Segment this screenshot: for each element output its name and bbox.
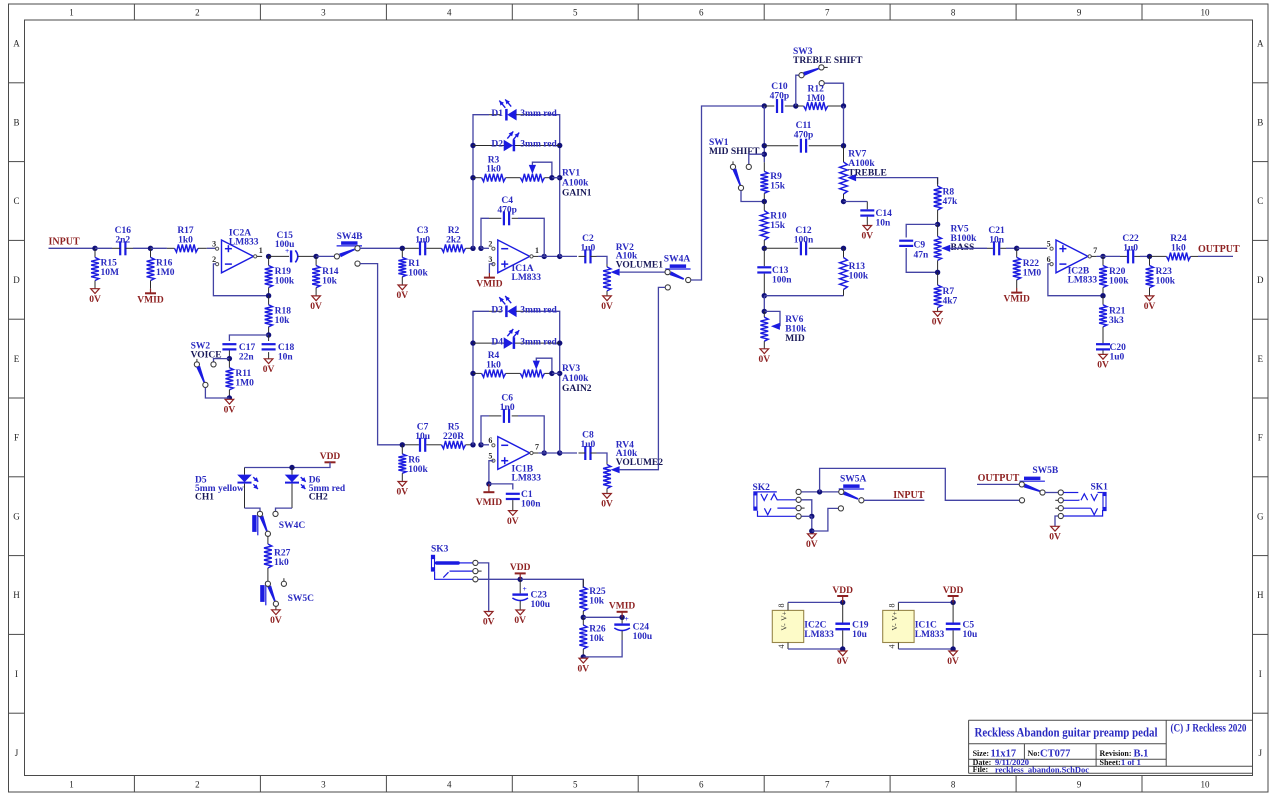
svg-text:2: 2 xyxy=(195,780,200,790)
node ch1 right rail xyxy=(557,254,562,259)
resistor R18 xyxy=(268,296,270,305)
ground 0V under R6 xyxy=(398,482,407,487)
wire IC2C V+ to VDD xyxy=(788,601,843,603)
svg-text:0V: 0V xyxy=(601,500,613,510)
svg-text:2n2: 2n2 xyxy=(115,235,130,245)
capacitor C1 xyxy=(489,484,513,490)
op-amp IC2B xyxy=(1056,240,1088,273)
svg-text:C9: C9 xyxy=(914,241,926,251)
ground 0V SK1 xyxy=(1051,526,1060,531)
svg-text:H: H xyxy=(1257,590,1264,600)
svg-text:A100k: A100k xyxy=(562,374,589,384)
svg-text:0V: 0V xyxy=(806,540,818,550)
node ch2 rail bottom xyxy=(470,442,475,447)
svg-text:6: 6 xyxy=(699,8,704,18)
resistor R26 xyxy=(582,617,584,625)
resistor R5 xyxy=(433,444,442,446)
ground 0V under R1 xyxy=(398,285,407,290)
capacitor C22 xyxy=(1127,249,1129,263)
node C11 left xyxy=(762,143,767,148)
svg-text:G: G xyxy=(13,511,20,521)
svg-text:(C) J Reckless 2020: (C) J Reckless 2020 xyxy=(1171,723,1247,735)
node SK2 tip junction xyxy=(817,489,822,494)
wire to C14 xyxy=(844,201,868,203)
svg-text:SW5C: SW5C xyxy=(288,594,315,604)
node R1 top xyxy=(400,246,405,251)
svg-text:100k: 100k xyxy=(275,277,295,287)
svg-text:1M0: 1M0 xyxy=(1023,269,1042,279)
node C12 right xyxy=(841,246,846,251)
svg-text:1k0: 1k0 xyxy=(1171,243,1186,253)
svg-text:0V: 0V xyxy=(483,618,495,628)
node RV5 bottom xyxy=(935,270,940,275)
resistor R3 xyxy=(473,177,482,179)
ground 0V IC1C xyxy=(949,651,958,656)
svg-text:1k0: 1k0 xyxy=(486,360,501,370)
node IC2A output xyxy=(266,254,271,259)
wire RV7 wiper to R8 xyxy=(856,178,938,184)
svg-text:V-: V- xyxy=(890,623,899,631)
wire SK1 sleeve to ground xyxy=(1055,516,1058,526)
svg-text:IC1C: IC1C xyxy=(915,621,937,631)
svg-text:R9: R9 xyxy=(770,172,782,182)
capacitor C20 xyxy=(1102,335,1104,343)
svg-text:J: J xyxy=(1259,748,1263,758)
node D4 left xyxy=(470,340,475,345)
svg-text:C13: C13 xyxy=(772,266,789,276)
wire tone rail1 xyxy=(763,106,765,162)
svg-text:VDD: VDD xyxy=(510,563,531,573)
capacitor C10 xyxy=(764,105,774,107)
svg-text:1: 1 xyxy=(69,8,74,18)
wire divider to C24 xyxy=(583,616,622,618)
wire ch1 right rail xyxy=(530,115,560,257)
svg-text:LM833: LM833 xyxy=(915,630,945,640)
svg-text:4: 4 xyxy=(447,780,452,790)
svg-text:15k: 15k xyxy=(770,221,786,231)
wire ch1 left rail xyxy=(473,115,489,249)
svg-text:R18: R18 xyxy=(275,307,292,317)
svg-text:V+: V+ xyxy=(780,611,789,621)
node C11 right xyxy=(841,143,846,148)
ground 0V under C23 xyxy=(516,610,525,615)
node D2 left xyxy=(470,143,475,148)
svg-text:Size:: Size: xyxy=(973,749,989,758)
svg-text:470p: 470p xyxy=(794,130,814,140)
svg-text:7: 7 xyxy=(1093,246,1097,255)
svg-text:10M: 10M xyxy=(101,268,120,278)
svg-text:5: 5 xyxy=(573,780,578,790)
node C6 left leg xyxy=(478,442,483,447)
svg-text:0V: 0V xyxy=(396,291,408,301)
svg-text:6: 6 xyxy=(699,780,704,790)
node IC1A output C4 leg xyxy=(542,254,547,259)
ground 0V IC2C xyxy=(838,651,847,656)
capacitor C17 xyxy=(222,343,236,345)
svg-text:SW4C: SW4C xyxy=(279,521,306,531)
node R20-R21 xyxy=(1100,293,1105,298)
power VMID at IC1A pin3 xyxy=(489,264,493,273)
node VDD IC1C xyxy=(950,600,955,605)
capacitor C3 xyxy=(419,241,421,255)
resistor R23 xyxy=(1149,256,1151,265)
svg-text:Sheet:: Sheet: xyxy=(1100,758,1121,767)
svg-text:10k: 10k xyxy=(589,597,605,607)
resistor R14 xyxy=(315,256,317,265)
svg-text:10n: 10n xyxy=(989,235,1005,245)
op-amp power part IC1C xyxy=(883,610,914,642)
svg-text:No:: No: xyxy=(1028,749,1040,758)
node C21-R22 xyxy=(1014,246,1019,251)
node R8 bottom xyxy=(935,222,940,227)
op-amp IC2A xyxy=(222,240,254,273)
svg-text:C19: C19 xyxy=(852,621,869,631)
node ch2 right rail xyxy=(557,450,562,455)
svg-text:VMID: VMID xyxy=(137,295,164,305)
svg-text:VMID: VMID xyxy=(1004,295,1031,305)
svg-text:IC2C: IC2C xyxy=(804,621,826,631)
node C10-SW3 xyxy=(793,103,798,108)
svg-text:SK1: SK1 xyxy=(1091,482,1109,492)
potentiometer RV5 BASS xyxy=(937,224,939,236)
resistor R11 xyxy=(228,359,230,368)
svg-text:3mm red: 3mm red xyxy=(520,337,557,347)
capacitor C23 xyxy=(519,579,521,593)
node feedback junction xyxy=(266,293,271,298)
svg-text:E: E xyxy=(1258,354,1264,364)
wire to C17 xyxy=(229,335,268,341)
svg-text:0V: 0V xyxy=(1049,533,1061,543)
svg-text:10n: 10n xyxy=(876,219,892,229)
svg-text:CH2: CH2 xyxy=(309,492,328,502)
svg-text:470p: 470p xyxy=(770,91,790,101)
svg-text:0V: 0V xyxy=(89,295,101,305)
svg-text:10n: 10n xyxy=(278,352,294,362)
svg-text:C23: C23 xyxy=(531,591,548,601)
node RV3 right xyxy=(549,371,554,376)
svg-text:R20: R20 xyxy=(1109,267,1126,277)
svg-text:470p: 470p xyxy=(497,205,517,215)
svg-text:Reckless Abandon guitar preamp: Reckless Abandon guitar preamp pedal xyxy=(975,726,1158,740)
resistor R25 xyxy=(582,579,584,587)
svg-text:7: 7 xyxy=(535,443,539,452)
capacitor C6 feedback xyxy=(481,416,489,445)
svg-text:1M0: 1M0 xyxy=(235,379,254,389)
wire D6 cathode to SW4C xyxy=(276,508,293,511)
svg-text:R25: R25 xyxy=(589,587,606,597)
resistor R1 xyxy=(401,248,403,257)
wire C2 to RV2 xyxy=(597,256,608,264)
svg-text:0V: 0V xyxy=(947,657,959,667)
resistor R7 xyxy=(937,272,939,285)
wire D5 cathode to SW4C xyxy=(245,508,261,511)
ground 0V under C18 xyxy=(264,359,273,364)
svg-text:100k: 100k xyxy=(408,465,428,475)
svg-text:10u: 10u xyxy=(852,630,868,640)
node SK2 ground 2 xyxy=(809,528,814,533)
svg-text:V-: V- xyxy=(780,623,789,631)
svg-text:CT077: CT077 xyxy=(1040,749,1070,760)
svg-text:5: 5 xyxy=(1047,240,1051,249)
node RV1 right xyxy=(549,175,554,180)
node R18 bottom xyxy=(266,332,271,337)
svg-text:4k7: 4k7 xyxy=(943,297,958,307)
svg-text:1M0: 1M0 xyxy=(156,268,175,278)
node SK2 ground 1 xyxy=(809,514,814,519)
svg-text:100k: 100k xyxy=(1156,277,1176,287)
svg-text:R26: R26 xyxy=(589,625,606,635)
wire SK3 sleeve to VDD rail xyxy=(478,578,520,580)
svg-text:SK3: SK3 xyxy=(431,545,449,555)
svg-text:2: 2 xyxy=(488,240,492,249)
potentiometer RV7 TREBLE xyxy=(843,146,845,162)
resistor R27 xyxy=(267,536,269,544)
node D4 right xyxy=(557,340,562,345)
diode D3 LED xyxy=(489,310,501,312)
node IC1B output C6 leg xyxy=(542,450,547,455)
svg-text:100n: 100n xyxy=(521,500,541,510)
svg-text:SW4A: SW4A xyxy=(664,255,691,265)
svg-text:6: 6 xyxy=(488,436,492,445)
resistor R8 xyxy=(937,178,939,186)
svg-text:0V: 0V xyxy=(758,355,770,365)
svg-text:F: F xyxy=(14,433,19,443)
ground 0V under RV6 xyxy=(760,349,769,354)
svg-text:4: 4 xyxy=(447,8,452,18)
node C13 bottom xyxy=(762,293,767,298)
wire INPUT to C16 xyxy=(49,247,96,249)
svg-text:1n0: 1n0 xyxy=(500,403,515,413)
svg-text:47n: 47n xyxy=(914,251,930,261)
node ground IC1C xyxy=(950,646,955,651)
ground 0V under R26 xyxy=(579,658,588,663)
ground 0V under RV2 xyxy=(603,296,612,301)
svg-text:8: 8 xyxy=(951,780,956,790)
wire C8 to RV4 xyxy=(597,453,608,462)
svg-text:LM833: LM833 xyxy=(1068,276,1098,286)
diode D1 LED xyxy=(489,114,501,116)
resistor R13 xyxy=(843,248,845,257)
svg-text:3k3: 3k3 xyxy=(1109,316,1124,326)
wire C24 to ground rail xyxy=(583,640,622,657)
svg-text:C17: C17 xyxy=(239,343,256,353)
node VMID divider xyxy=(581,615,586,620)
svg-text:GAIN2: GAIN2 xyxy=(562,384,592,394)
svg-text:2k2: 2k2 xyxy=(446,235,461,245)
svg-text:RV1: RV1 xyxy=(562,169,580,179)
ground 0V under SW5C xyxy=(275,606,277,609)
node ch1 rail at R3 row xyxy=(557,175,562,180)
svg-text:A100k: A100k xyxy=(848,159,875,169)
svg-text:7: 7 xyxy=(825,8,830,18)
svg-text:SW5A: SW5A xyxy=(840,474,867,484)
svg-text:+: + xyxy=(523,584,527,593)
svg-text:9: 9 xyxy=(1077,780,1082,790)
wire IC2C V- to ground xyxy=(788,648,843,650)
svg-text:OUTPUT: OUTPUT xyxy=(1198,244,1240,255)
svg-text:0V: 0V xyxy=(932,318,944,328)
wire SK2 ring to ground xyxy=(801,500,811,514)
potentiometer RV6 MID xyxy=(764,311,780,326)
op-amp power part IC2C xyxy=(772,610,803,642)
svg-text:C: C xyxy=(1257,196,1263,206)
wire feedback IC2B pin6 xyxy=(1048,264,1103,296)
node C12 left xyxy=(762,246,767,251)
svg-text:3: 3 xyxy=(321,780,326,790)
svg-text:8: 8 xyxy=(887,604,896,608)
capacitor C16 xyxy=(95,247,112,249)
diode D2 LED xyxy=(473,145,504,147)
svg-text:INPUT: INPUT xyxy=(893,490,924,501)
wire send to SW5B xyxy=(820,468,1020,500)
node VDD-C23 xyxy=(518,577,523,582)
wire SW5B to SK1 tip xyxy=(1045,492,1058,494)
ground 0V under R15 xyxy=(91,289,100,294)
resistor R2 xyxy=(433,247,442,249)
svg-text:LM833: LM833 xyxy=(512,273,542,283)
svg-text:LM833: LM833 xyxy=(512,474,542,484)
svg-text:D: D xyxy=(1257,275,1264,285)
svg-text:RV7: RV7 xyxy=(848,150,866,160)
svg-text:C14: C14 xyxy=(876,209,893,219)
svg-text:C1: C1 xyxy=(521,490,533,500)
wire to IC2B pin5 xyxy=(1017,247,1047,249)
svg-text:RV5: RV5 xyxy=(951,225,969,235)
svg-text:0V: 0V xyxy=(310,302,322,312)
resistor R21 xyxy=(1102,296,1104,305)
wire RV5 wiper to C21 xyxy=(950,247,987,249)
node VMID-C1 xyxy=(486,481,491,486)
resistor R16 xyxy=(150,248,152,257)
svg-text:3mm red: 3mm red xyxy=(520,306,557,316)
node tone input xyxy=(762,103,767,108)
capacitor C19 xyxy=(842,602,844,622)
svg-text:3mm red: 3mm red xyxy=(520,140,557,150)
power VMID under R16 xyxy=(150,289,152,294)
title block xyxy=(969,719,1253,721)
ground 0V under C20 xyxy=(1099,354,1108,359)
svg-text:3: 3 xyxy=(488,255,492,264)
svg-text:INPUT: INPUT xyxy=(49,237,80,248)
wire IC1C V+ to VDD xyxy=(898,601,953,603)
ground 0V under R11 xyxy=(225,399,234,404)
svg-text:0V: 0V xyxy=(601,302,613,312)
svg-text:A: A xyxy=(13,39,20,49)
svg-text:+: + xyxy=(624,614,628,623)
wire SW4A common up to tone stack xyxy=(691,106,765,280)
svg-text:A100k: A100k xyxy=(562,179,589,189)
node R6 top xyxy=(400,442,405,447)
svg-text:0V: 0V xyxy=(1097,361,1109,371)
wire SW4B lower throw to channel2 xyxy=(360,264,402,445)
svg-text:R19: R19 xyxy=(275,267,292,277)
wire SW4A lower throw to RV4 wiper xyxy=(620,287,666,469)
svg-text:100n: 100n xyxy=(794,235,814,245)
capacitor C5 xyxy=(952,602,954,622)
svg-text:GAIN1: GAIN1 xyxy=(562,189,592,199)
svg-text:C20: C20 xyxy=(1110,343,1127,353)
wire SK3 tip to ground xyxy=(478,563,489,612)
node C4 left leg xyxy=(478,246,483,251)
svg-text:File:: File: xyxy=(973,765,989,774)
capacitor C18 xyxy=(268,335,270,341)
svg-text:10: 10 xyxy=(1201,8,1211,18)
svg-text:1k0: 1k0 xyxy=(486,165,501,175)
svg-text:5: 5 xyxy=(573,8,578,18)
resistor R24 xyxy=(1150,255,1167,257)
svg-text:VOLUME2: VOLUME2 xyxy=(616,458,664,468)
resistor R17 xyxy=(151,247,167,249)
svg-text:47k: 47k xyxy=(943,197,959,207)
svg-text:B: B xyxy=(13,117,19,127)
svg-text:VDD: VDD xyxy=(943,586,964,596)
capacitor C14 xyxy=(866,202,868,210)
svg-text:J: J xyxy=(15,748,19,758)
capacitor C12 xyxy=(764,247,798,249)
node ch1 rail bottom xyxy=(470,246,475,251)
svg-text:R1: R1 xyxy=(408,259,420,269)
svg-text:VDD: VDD xyxy=(832,586,853,596)
svg-text:0V: 0V xyxy=(1144,302,1156,312)
svg-text:5: 5 xyxy=(488,452,492,461)
node C22-R23 xyxy=(1147,254,1152,259)
svg-text:0V: 0V xyxy=(396,488,408,498)
svg-text:RV6: RV6 xyxy=(785,315,803,325)
resistor R10 xyxy=(763,202,765,211)
wire IC1C V- to ground xyxy=(898,648,953,650)
svg-text:A: A xyxy=(1257,39,1264,49)
resistor R9 xyxy=(763,162,765,171)
svg-text:MID SHIFT: MID SHIFT xyxy=(709,147,760,157)
capacitor C11 xyxy=(764,145,798,147)
node RV7 bottom xyxy=(841,199,846,204)
svg-text:4: 4 xyxy=(777,645,786,649)
svg-text:OUTPUT: OUTPUT xyxy=(978,473,1020,484)
svg-text:1: 1 xyxy=(69,780,74,790)
svg-text:4: 4 xyxy=(887,645,896,649)
wire SK2 tip to SW5A xyxy=(801,491,838,493)
potentiometer RV3 xyxy=(512,372,520,374)
svg-text:LM833: LM833 xyxy=(804,630,834,640)
svg-text:3: 3 xyxy=(212,240,216,249)
wire SW5A mute throw xyxy=(812,508,839,531)
svg-text:0V: 0V xyxy=(507,517,519,527)
svg-text:D1: D1 xyxy=(491,109,503,119)
svg-text:C5: C5 xyxy=(963,621,975,631)
svg-text:VMID: VMID xyxy=(476,280,503,290)
svg-text:9: 9 xyxy=(1077,8,1082,18)
svg-text:1 of 1: 1 of 1 xyxy=(1121,757,1141,767)
svg-text:TREBLE SHIFT: TREBLE SHIFT xyxy=(793,56,863,66)
svg-text:10: 10 xyxy=(1201,780,1211,790)
node ground IC2C xyxy=(840,646,845,651)
capacitor C15 polarized xyxy=(269,255,290,257)
svg-text:0V: 0V xyxy=(270,616,282,626)
resistor R4 xyxy=(473,372,482,374)
svg-text:SW5B: SW5B xyxy=(1032,466,1059,476)
svg-text:100u: 100u xyxy=(531,600,551,610)
svg-text:D3: D3 xyxy=(491,306,503,316)
svg-text:1u0: 1u0 xyxy=(1123,243,1138,253)
node R9-R10 xyxy=(762,199,767,204)
potentiometer RV1 xyxy=(512,177,520,179)
capacitor C21 xyxy=(993,241,995,255)
svg-text:0V: 0V xyxy=(263,365,275,375)
svg-text:D2: D2 xyxy=(491,140,503,150)
node VDD IC2C xyxy=(840,600,845,605)
diode D5 LED yellow xyxy=(244,468,246,475)
svg-text:0V: 0V xyxy=(224,406,236,416)
